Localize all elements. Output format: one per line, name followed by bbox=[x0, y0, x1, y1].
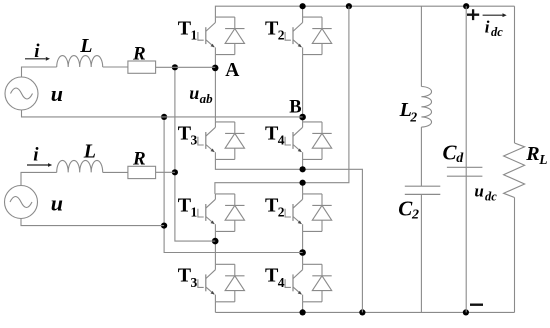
wire T3 bottom bracket bbox=[215, 158, 234, 160]
svg-text:2: 2 bbox=[409, 109, 417, 124]
wire T4 diode anode lead bbox=[321, 148, 323, 159]
wire T1 bottom bracket bbox=[215, 230, 234, 232]
node junction bottom rail T4 bbox=[300, 309, 306, 315]
label L2a bbox=[83, 140, 96, 162]
node junction bridge1 rail T4 bbox=[300, 166, 306, 172]
svg-text:B: B bbox=[289, 97, 301, 117]
inductor L1 bbox=[57, 56, 103, 67]
wire Cd column bbox=[465, 6, 467, 312]
svg-text:L: L bbox=[83, 140, 96, 162]
wire T4 bottom bracket bbox=[303, 158, 322, 160]
node junction top rail T2 bbox=[300, 3, 306, 9]
wire leg B2 T2b-T4b bbox=[302, 231, 304, 264]
label T3 bbox=[178, 265, 198, 290]
label plus bbox=[467, 9, 479, 20]
node junction top rail Cd column bbox=[463, 3, 469, 9]
wire T4 diode cathode lead bbox=[321, 122, 323, 133]
wire T3 diode cathode lead bbox=[234, 122, 236, 133]
svg-text:4: 4 bbox=[278, 275, 285, 290]
node junction top rail x348.9 bbox=[346, 3, 352, 9]
label C2 bbox=[398, 197, 419, 223]
wire T4 top bracket bbox=[303, 263, 322, 265]
label i2 bbox=[33, 144, 39, 165]
wire L2 column top bbox=[420, 6, 422, 86]
transistor T4 bbox=[285, 264, 303, 302]
svg-text:u: u bbox=[51, 191, 63, 216]
inductor L2 bbox=[421, 87, 431, 128]
node junction source2 return bbox=[161, 223, 167, 229]
node B bbox=[299, 114, 306, 121]
node junction R1 output bbox=[172, 64, 178, 70]
label T4 bbox=[265, 122, 285, 147]
label T1 bbox=[178, 18, 198, 43]
svg-text:R: R bbox=[525, 143, 539, 165]
wire T2 collector lead bbox=[302, 6, 304, 17]
svg-text:3: 3 bbox=[191, 275, 198, 290]
wire T3 top bracket bbox=[215, 121, 234, 123]
wire T4b emitter lead bbox=[302, 302, 304, 313]
label L1 bbox=[79, 35, 92, 57]
transistor T1 bbox=[198, 17, 216, 55]
svg-text:d: d bbox=[456, 151, 464, 166]
node A bbox=[212, 65, 219, 72]
transistor T3 bbox=[198, 122, 216, 159]
svg-text:ab: ab bbox=[200, 91, 214, 106]
ac source u1 bbox=[5, 77, 38, 110]
current arrow i2 bbox=[27, 163, 52, 167]
label A bbox=[225, 60, 239, 81]
transistor T2 bbox=[285, 194, 303, 232]
wire T2 bottom bracket bbox=[303, 230, 322, 232]
label u1 bbox=[51, 81, 63, 106]
resistor R2 bbox=[128, 166, 156, 178]
wire T4 emitter lead bbox=[302, 159, 304, 169]
wire bridge1 negative rail bbox=[215, 159, 362, 312]
wire leg A T1-T3 bbox=[214, 55, 216, 122]
svg-text:2: 2 bbox=[278, 28, 285, 43]
wire source2 bottom lead bbox=[21, 219, 164, 226]
svg-text:1: 1 bbox=[191, 28, 198, 43]
wire right edge down to RL bbox=[514, 6, 516, 143]
transistor T3 bbox=[198, 264, 216, 302]
transistor T2 bbox=[285, 17, 303, 55]
label L2 bbox=[399, 99, 418, 124]
wire dc- bottom rail bbox=[215, 311, 514, 313]
wire source1 bottom to node B bbox=[22, 110, 303, 117]
wire T1 top bracket bbox=[215, 16, 234, 18]
resistor R1 bbox=[128, 61, 156, 73]
svg-text:u: u bbox=[189, 83, 199, 103]
diode of T4 bbox=[312, 133, 331, 148]
label Cd bbox=[443, 141, 465, 167]
label minus bbox=[470, 304, 483, 306]
label T3 bbox=[178, 122, 198, 147]
wire T3 bottom bracket bbox=[215, 301, 234, 303]
diode of T3 bbox=[225, 133, 244, 148]
wire leg B T2-T4 bbox=[302, 55, 304, 122]
label T1 bbox=[178, 194, 198, 219]
wire T2 diode anode lead bbox=[321, 43, 323, 54]
wire T2 diode anode lead bbox=[321, 220, 323, 231]
wire source2 top lead bbox=[21, 172, 57, 185]
node B2 bbox=[299, 249, 306, 256]
wire T2 top bracket bbox=[303, 193, 322, 195]
capacitor Cd bbox=[447, 167, 483, 176]
wire bridge2 positive rail bbox=[215, 6, 349, 194]
label T2 bbox=[265, 18, 285, 43]
svg-text:L: L bbox=[79, 35, 92, 57]
label RL bbox=[525, 143, 547, 167]
wire source1 top lead bbox=[22, 67, 57, 77]
wire tie line x174.9 to A2 bbox=[175, 67, 215, 241]
svg-text:2: 2 bbox=[411, 207, 419, 222]
node junction bottom rail Cd column bbox=[463, 309, 469, 315]
wire T4 bottom bracket bbox=[303, 301, 322, 303]
wire T4 diode anode lead bbox=[321, 291, 323, 302]
svg-text:u: u bbox=[474, 182, 483, 201]
svg-text:i: i bbox=[485, 18, 490, 37]
current arrow idc bbox=[483, 13, 507, 17]
wire C2 to bottom rail bbox=[420, 194, 422, 312]
svg-text:R: R bbox=[132, 43, 146, 64]
inductor L2a bbox=[57, 160, 103, 172]
ac source u2 bbox=[5, 186, 38, 219]
wire T3b emitter lead bbox=[214, 302, 216, 313]
resistor RL bbox=[504, 143, 525, 198]
svg-text:3: 3 bbox=[191, 132, 198, 147]
diode of T2 bbox=[312, 29, 331, 44]
wire T1 diode cathode lead bbox=[234, 194, 236, 206]
svg-text:i: i bbox=[33, 144, 39, 165]
wire T4 diode cathode lead bbox=[321, 264, 323, 276]
wire tie line x164.1 to B2 bbox=[164, 117, 303, 253]
node junction source1 return bbox=[161, 114, 167, 120]
wire right edge RL to bottom rail bbox=[514, 198, 516, 313]
wire T2 diode cathode lead bbox=[321, 194, 323, 206]
svg-text:C: C bbox=[398, 197, 413, 221]
svg-text:2: 2 bbox=[278, 204, 285, 219]
label R1 bbox=[132, 43, 146, 64]
wire dc+ top rail bbox=[215, 6, 514, 17]
svg-text:dc: dc bbox=[491, 25, 503, 39]
wire T3 diode cathode lead bbox=[234, 264, 236, 276]
wire T3 top bracket bbox=[215, 263, 234, 265]
wire T4 top bracket bbox=[303, 121, 322, 123]
diode of T1 bbox=[225, 205, 244, 220]
wire T2b collector lead bbox=[302, 183, 304, 194]
svg-text:1: 1 bbox=[191, 204, 198, 219]
svg-text:4: 4 bbox=[278, 132, 285, 147]
svg-text:dc: dc bbox=[485, 189, 497, 203]
diode of T4 bbox=[312, 276, 331, 291]
wire T1 diode cathode lead bbox=[234, 17, 236, 29]
svg-text:u: u bbox=[51, 81, 63, 106]
wire T1 diode anode lead bbox=[234, 220, 236, 231]
label u2 bbox=[51, 191, 63, 216]
svg-text:A: A bbox=[225, 60, 239, 81]
label B bbox=[289, 97, 301, 117]
diode of T1 bbox=[225, 29, 244, 44]
wire T2 diode cathode lead bbox=[321, 17, 323, 29]
label T4 bbox=[265, 265, 285, 290]
node junction bridge2 rail T2b bbox=[300, 180, 306, 186]
wire T2 bottom bracket bbox=[303, 54, 322, 56]
wire T1 diode anode lead bbox=[234, 43, 236, 54]
capacitor C2 bbox=[405, 186, 441, 194]
transistor T4 bbox=[285, 122, 303, 159]
wire T1 top bracket bbox=[215, 193, 234, 195]
wire R2 to tie line bbox=[156, 171, 175, 173]
wire L1 to R1 bbox=[103, 66, 128, 68]
svg-text:R: R bbox=[132, 149, 146, 170]
transistor T1 bbox=[198, 194, 216, 232]
wire T3 diode anode lead bbox=[234, 291, 236, 302]
node junction R2 output bbox=[172, 169, 178, 175]
wire T3 diode anode lead bbox=[234, 148, 236, 159]
node junction bottom rail x362.4 bbox=[359, 309, 365, 315]
node A2 bbox=[212, 238, 219, 245]
label R2 bbox=[132, 149, 146, 170]
wire leg A2 T1b-T3b bbox=[214, 231, 216, 264]
wire T2 top bracket bbox=[303, 16, 322, 18]
wire L2 to C2 bbox=[420, 127, 422, 186]
wire T1 bottom bracket bbox=[215, 54, 234, 56]
label udc bbox=[474, 182, 497, 204]
diode of T3 bbox=[225, 276, 244, 291]
svg-text:C: C bbox=[443, 141, 458, 165]
diode of T2 bbox=[312, 205, 331, 220]
wire L2a to R2 bbox=[103, 171, 128, 173]
svg-text:L: L bbox=[538, 152, 547, 167]
wire R1 to node A bbox=[156, 66, 216, 68]
label uab bbox=[189, 83, 213, 106]
label T2 bbox=[265, 194, 285, 219]
label idc bbox=[485, 18, 503, 39]
label i1 bbox=[34, 41, 40, 62]
current arrow i1 bbox=[25, 57, 50, 61]
